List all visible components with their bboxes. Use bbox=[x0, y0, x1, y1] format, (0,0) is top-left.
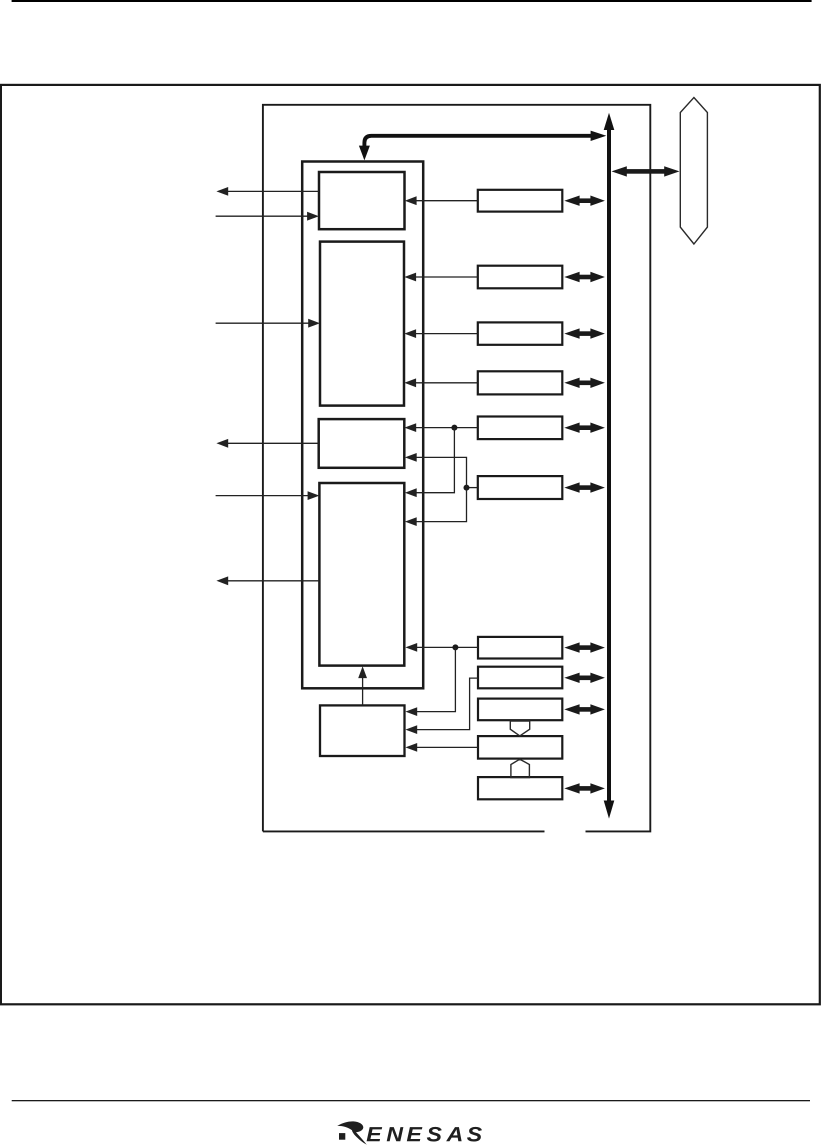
wire: junction2 branch up to block C bbox=[416, 457, 467, 487]
wire: junction2 branch down to block D bbox=[416, 488, 467, 522]
wire: box2 to block B bbox=[415, 276, 478, 278]
CPU sub-block D (tall lower) bbox=[319, 483, 404, 666]
peripheral box 8 bbox=[478, 667, 562, 689]
wire: in-arrow to block A from left bbox=[216, 215, 309, 217]
double arrow box8-bus bbox=[564, 673, 605, 683]
CPU sub-block C (small middle) bbox=[319, 419, 405, 468]
logo letters ENESAS bbox=[367, 1127, 383, 1141]
wire: box8 to clock box bbox=[416, 678, 478, 730]
peripheral box 11 bbox=[478, 777, 562, 799]
chip inner container box (bottom edge has a gap) bbox=[263, 105, 650, 832]
double arrow box5-bus bbox=[564, 423, 605, 433]
bus bottom arrowhead bbox=[604, 801, 615, 819]
peripheral box 5 bbox=[478, 417, 563, 440]
junction dot 3 bbox=[452, 644, 458, 650]
wire: in-arrow to block B from left bbox=[216, 322, 310, 324]
double arrow box4-bus bbox=[564, 378, 605, 388]
wire: out-arrow from block D to left bbox=[227, 580, 319, 582]
double arrow box7-bus bbox=[564, 642, 605, 652]
peripheral box 2 bbox=[478, 266, 563, 289]
CPU sub-block A (top) bbox=[319, 172, 405, 229]
thick arrow bus-to-CPU (elbow, two heads) bbox=[364, 136, 591, 147]
wire: box6 to junction 2 bbox=[467, 487, 478, 489]
double arrow box3-bus bbox=[564, 328, 605, 338]
wire: box5 to block C (with junction) bbox=[415, 427, 478, 429]
peripheral box 7 bbox=[478, 637, 562, 659]
clock oscillator box bbox=[320, 705, 405, 756]
bus top arrowhead bbox=[604, 113, 615, 130]
wire: out-arrow from block C to left bbox=[227, 442, 319, 444]
double arrow box6-bus bbox=[564, 482, 605, 492]
double arrow box1-bus bbox=[564, 196, 605, 206]
internal data bus (thick vertical) bbox=[607, 128, 611, 802]
double arrow box2-bus bbox=[564, 272, 605, 282]
peripheral box 1 bbox=[478, 190, 563, 212]
wire: out-arrow from block A to left bbox=[227, 190, 319, 192]
connector pentagon between box9 and box10 (points down) bbox=[510, 721, 529, 736]
double arrow bus to port hexagon bbox=[624, 169, 666, 174]
wire: junction3 branch down to clock box bbox=[416, 647, 455, 711]
wire: in-arrow to block D from left bbox=[216, 495, 309, 497]
peripheral box 4 bbox=[478, 371, 563, 394]
peripheral box 10 bbox=[478, 736, 562, 759]
figure outer border box bbox=[1, 85, 820, 1004]
CPU sub-block B (tall upper) bbox=[320, 242, 404, 406]
wire: box7 to block D (with junction) bbox=[416, 646, 478, 648]
peripheral box 3 bbox=[478, 322, 563, 344]
junction dot 2 bbox=[464, 485, 470, 491]
footer separator line bbox=[12, 1100, 810, 1101]
wire: box4 to block B bbox=[415, 382, 478, 384]
page header black bar bbox=[12, 0, 812, 2]
peripheral box 6 bbox=[478, 476, 563, 499]
wire: clock box up-arrow to block D bbox=[362, 678, 364, 706]
peripheral box 9 bbox=[478, 699, 562, 721]
double arrow box9-bus bbox=[564, 704, 605, 714]
connector pentagon between box10 and box11 (points up) bbox=[511, 759, 530, 777]
port hexagon bbox=[680, 98, 707, 245]
Renesas logo bbox=[337, 1121, 482, 1144]
CPU frame (double box outer) bbox=[302, 162, 423, 689]
logo square dot bbox=[339, 1133, 345, 1140]
wire: box10 to clock box bbox=[416, 746, 478, 748]
wire: box3 to block B bbox=[415, 333, 478, 335]
junction dot 1 bbox=[451, 425, 457, 431]
wire: box1 to block A bbox=[416, 200, 478, 202]
wire: junction1 branch down to block D bbox=[416, 428, 455, 493]
logo R swoosh bbox=[337, 1121, 367, 1144]
double arrow box11-bus bbox=[564, 783, 605, 793]
